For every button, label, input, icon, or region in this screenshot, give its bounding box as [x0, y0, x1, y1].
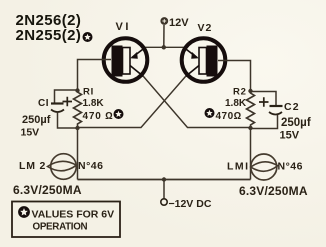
svg-text:15V: 15V	[21, 127, 40, 139]
capacitor C1	[21, 90, 78, 139]
junction +12V node	[162, 45, 166, 49]
svg-text:N°46: N°46	[78, 160, 103, 172]
svg-text:1.8K: 1.8K	[225, 98, 247, 109]
svg-text:LMI: LMI	[227, 160, 250, 172]
svg-text:12V: 12V	[169, 17, 189, 29]
svg-text:250µf: 250µf	[281, 117, 311, 129]
svg-text:250µf: 250µf	[22, 114, 51, 126]
junction -12V node	[162, 177, 166, 181]
wire V1 collector to node D (cross coupling)	[144, 77, 251, 128]
lamp LM2	[13, 154, 103, 197]
svg-text:CI: CI	[38, 98, 49, 109]
values-note star marker (R2)	[205, 108, 215, 118]
svg-text:N°46: N°46	[278, 160, 303, 172]
svg-text:470 Ω: 470 Ω	[83, 111, 114, 122]
wire V2 base to node B	[218, 61, 251, 92]
transistor V2	[182, 22, 226, 82]
node A junction (V1 base / R1 / C1+)	[75, 88, 79, 92]
node B junction (V2 base / R2 / C2+)	[248, 89, 252, 93]
wire node D to bottom rail (through LM1 tap)	[250, 128, 252, 180]
-12V DC terminal	[161, 180, 212, 210]
+12V terminal	[160, 17, 189, 29]
svg-text:1.8K: 1.8K	[83, 98, 105, 109]
node C junction (C1- / V2 collector / LM2)	[75, 126, 79, 130]
node D junction (C2- / V1 collector / LM1)	[248, 126, 252, 130]
wire node C to bottom rail (through LM2 tap)	[77, 128, 79, 180]
wire V2 collector to node C (cross coupling)	[78, 77, 186, 128]
svg-text:R2: R2	[233, 87, 247, 98]
capacitor C2	[251, 92, 311, 142]
svg-text:15V: 15V	[280, 129, 300, 141]
wire +12V terminal to emitter rail	[163, 25, 165, 47]
svg-text:VI: VI	[116, 21, 131, 33]
svg-text:OPERATION: OPERATION	[33, 221, 88, 232]
svg-text:RI: RI	[83, 87, 94, 98]
svg-text:C2: C2	[284, 101, 300, 113]
wire emitter rail V2	[164, 46, 184, 48]
svg-text:VALUES FOR 6V: VALUES FOR 6V	[32, 209, 115, 221]
svg-text:2N255(2): 2N255(2)	[16, 27, 82, 44]
lamp LM1	[227, 154, 308, 198]
resistor R1	[74, 87, 114, 129]
values note box	[12, 202, 120, 238]
svg-text:LM 2: LM 2	[19, 160, 46, 172]
wire emitter rail V1	[144, 46, 164, 48]
values-note star marker (R1)	[114, 109, 124, 119]
svg-text:V2: V2	[198, 22, 213, 34]
svg-text:470Ω: 470Ω	[216, 111, 242, 122]
svg-text:6.3V/250MA: 6.3V/250MA	[239, 184, 308, 198]
wire V1 base to node A	[78, 60, 112, 91]
svg-text:−12V DC: −12V DC	[169, 198, 212, 210]
bottom rail wire	[78, 179, 251, 181]
transistor V1	[104, 21, 148, 82]
svg-text:6.3V/250MA: 6.3V/250MA	[13, 183, 82, 197]
resistor R2	[216, 87, 255, 129]
values-note star marker (title)	[83, 32, 93, 42]
